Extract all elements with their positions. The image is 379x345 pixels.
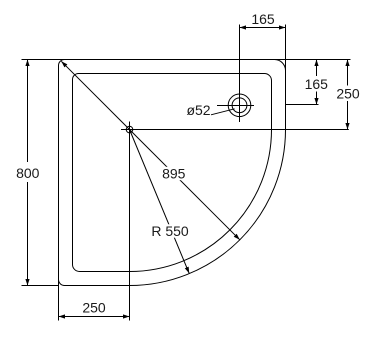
wire right 250 dimension line bbox=[347, 60, 349, 130]
arrow left-800 up bbox=[25, 60, 29, 67]
arc center mark circle bbox=[126, 126, 133, 133]
wire top extension line / tray top edge bbox=[22, 59, 351, 61]
arrow top-165 left bbox=[240, 25, 247, 29]
arrow bottom-250 left bbox=[59, 314, 66, 318]
arrow right-250 up bbox=[345, 60, 349, 67]
tray outer outline top-left corner bbox=[59, 60, 65, 66]
wire top 165 dimension line bbox=[240, 27, 286, 29]
wire right 165 dimension line bbox=[316, 60, 318, 105]
wire right 165 lower extension line bbox=[286, 104, 319, 106]
arrow bottom-250 right bbox=[123, 314, 130, 318]
label R 550 bbox=[150, 224, 190, 237]
svg-text:250: 250 bbox=[82, 300, 106, 316]
wire bottom 800 extension line bbox=[22, 285, 59, 287]
wire leader line from label to drain bbox=[211, 109, 235, 115]
wire R550 radius line bbox=[130, 130, 190, 274]
svg-text:165: 165 bbox=[305, 76, 329, 92]
wire left edge of tray + bottom-250 left extension bbox=[58, 66, 60, 321]
arrow 895 lower-right bbox=[234, 234, 240, 240]
wire left 800 dimension line bbox=[27, 60, 29, 286]
arrow right-165 down bbox=[314, 98, 318, 105]
label 800 left bbox=[16, 162, 40, 182]
label 165 right bbox=[306, 76, 328, 92]
svg-text:800: 800 bbox=[16, 165, 40, 181]
arrow right-250 down bbox=[345, 123, 349, 130]
wire diagonal 895 dimension line bbox=[61, 61, 240, 240]
drain inner circle bbox=[232, 98, 247, 113]
svg-text:250: 250 bbox=[336, 86, 360, 102]
arrow R550 tip bbox=[185, 267, 189, 274]
label 250 right bbox=[337, 86, 359, 102]
svg-text:ø52: ø52 bbox=[186, 102, 210, 118]
svg-text:R 550: R 550 bbox=[151, 223, 189, 239]
arrow top-165 right bbox=[279, 25, 286, 29]
tray inner rim outline bbox=[73, 74, 272, 272]
wire bottom 250 dimension line bbox=[59, 316, 130, 318]
wire drain horizontal centerline bbox=[217, 105, 254, 107]
tray outer outline top-right corner bbox=[275, 60, 286, 71]
svg-text:165: 165 bbox=[251, 11, 275, 27]
svg-text:895: 895 bbox=[162, 166, 186, 182]
arrow left-800 down bbox=[25, 279, 29, 286]
arrow 895 upper-left bbox=[61, 61, 67, 67]
drain outer circle bbox=[228, 94, 251, 117]
wire center vertical extension down to bottom-250 dimension bbox=[129, 122, 131, 321]
tray outer outline quarter arc R550 with bottom edge and bottom-left corner bbox=[59, 130, 286, 286]
wire drain vertical centerline + top-165 left extension bbox=[239, 25, 241, 123]
label 895 diagonal bbox=[161, 167, 188, 180]
wire right edge of tray + top-165 right extension bbox=[285, 25, 287, 130]
wire center horizontal extension right to 250 dimension bbox=[121, 129, 349, 131]
arrow right-165 up bbox=[314, 60, 318, 67]
